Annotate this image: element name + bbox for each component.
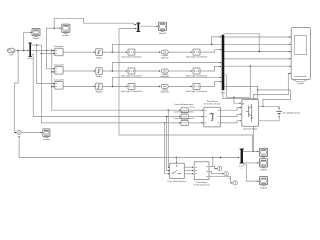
demux Demux (black bar) (28, 43, 33, 60)
wire DC source - return to bridge (259, 116, 280, 120)
wire relay branch row3 to Mux (112, 77, 221, 87)
wire Data Type Conversion4 to Mux (200, 66, 222, 71)
logical operator block Logical Operator (161, 50, 169, 59)
current measurement block Current Measurement1 (174, 111, 194, 119)
meter circle m1 (217, 166, 221, 174)
svg-text:Current Measurement: Current Measurement (174, 104, 193, 106)
data type conversion block Data Type Conversion4 (186, 68, 207, 77)
wire Mux1 output to Scope2 (140, 25, 158, 26)
wire top long line to Mux1 input1 (54, 18, 136, 28)
svg-text:Logical: Logical (162, 73, 168, 75)
wire Mux to Scope in4 (224, 58, 291, 59)
wire feedback down-left to Product circle (14, 51, 18, 134)
svg-text:Three-Phase Breaker: Three-Phase Breaker (167, 181, 186, 183)
relay block Relay2 (96, 83, 103, 93)
svg-text:Scope5: Scope5 (43, 138, 50, 140)
wire Mux to Scope in1 (224, 36, 291, 37)
wire demux2 out2 to Scope2b (243, 162, 259, 163)
svg-text:Scope4: Scope4 (62, 34, 69, 36)
wire demux out2 to Subsystem in1 (31, 50, 55, 51)
svg-text:1: 1 (241, 168, 242, 170)
scope Scope2 (159, 22, 167, 35)
wire Subsystem output to Relay (63, 51, 95, 52)
svg-text:V-I Measurement1: V-I Measurement1 (194, 184, 210, 186)
wire RLC branch to Universal Bridge (220, 107, 241, 110)
scope Scope2 bottom (260, 159, 268, 171)
wire gate band 1 (226, 97, 250, 98)
svg-text:Relay2: Relay2 (96, 91, 103, 93)
wire Logical Operator2 to Data Type Conversion5 (168, 86, 192, 87)
svg-text:m: m (229, 178, 231, 180)
wire Mux to Scope in5 (224, 65, 291, 66)
svg-text:Subsystem1: Subsystem1 (54, 64, 64, 66)
demux Demux1 (black bar bottom) (239, 149, 244, 170)
wire product output to Scope5 (21, 132, 42, 133)
meter circle m2 (224, 172, 230, 180)
svg-text:Data Type Conversion5: Data Type Conversion5 (186, 90, 207, 92)
svg-text:Current Measurement2: Current Measurement2 (174, 117, 194, 119)
wire Relay1 output to Data Type Conversion1 (102, 70, 127, 71)
wire demux out3 phase B to Current Measurement1 (31, 54, 181, 117)
wire V-I out3 to meter m3 (209, 176, 233, 183)
wire phase C drop to breaker in3 (165, 123, 170, 175)
wire Data Type Conversion2 to Logical Operator2 (135, 86, 161, 87)
scope Scope5 (43, 129, 50, 141)
wire relay branch row2 to Mux (112, 62, 221, 71)
subsystem block Subsystem (54, 46, 63, 56)
three-phase V-I measurement block (194, 162, 210, 186)
wire Data Type Conversion to Logical Operator (135, 51, 161, 52)
svg-text:m: m (235, 187, 237, 189)
wire demux2 out3 to Scope3b (243, 164, 259, 182)
meter circle m3 (233, 181, 237, 189)
svg-text:Vref: Vref (9, 54, 13, 56)
svg-text:Operator: Operator (161, 57, 169, 59)
wire Subsystem2 output to Relay2 (63, 86, 95, 87)
svg-text:Relay: Relay (96, 57, 101, 59)
subsystem block Subsystem1 (54, 64, 64, 74)
three-phase series RLC branch block (204, 100, 221, 127)
wire branch to Mux input1 (212, 36, 222, 44)
wire relay branch row1 long line to Scope (in2) (112, 44, 291, 53)
wire breaker control from measurement line (176, 157, 177, 164)
wire up to Scope1 (24, 32, 32, 51)
mux Mux1 (small mux bar with caps) (136, 23, 140, 32)
wire Mux lower output loop (224, 75, 226, 98)
wire row3 extension to right loop (224, 86, 258, 98)
wire demux2 out1 to Scope1b (243, 151, 259, 152)
svg-text:Scope2: Scope2 (260, 169, 267, 171)
svg-text:Scope6: Scope6 (297, 82, 304, 84)
svg-text:Demux: Demux (239, 165, 244, 167)
three-phase breaker block (167, 163, 186, 182)
relay block Relay (96, 49, 103, 59)
data type conversion block Data Type Conversion5 (186, 83, 207, 92)
svg-text:Three-Phase: Three-Phase (207, 100, 218, 102)
product circle (sum) (17, 130, 21, 134)
wire vertical x36.7 to Subsystem2 in1 (37, 45, 55, 84)
data type conversion block Data Type Conversion (122, 49, 142, 58)
svg-text:Three-Phase: Three-Phase (196, 181, 207, 183)
logical operator block Logical Operator1 (160, 69, 169, 78)
wire stub to Subsystem in2 (41, 53, 55, 54)
wire source output to Demux (15, 50, 29, 51)
scope Scope1 bottom (260, 148, 268, 160)
wire V-I out1 up to long measurement line (209, 157, 214, 167)
data type conversion block Data Type Conversion3 (186, 49, 207, 58)
wire stub Subsystem1 in2 (52, 71, 55, 72)
wire Logical Operator to Data Type Conversion3 (168, 51, 192, 52)
wire V-I out1 to meter m1 (213, 167, 217, 170)
svg-text:DC Voltage Source: DC Voltage Source (283, 112, 301, 114)
wire Data Type Conversion5 to Mux (200, 81, 222, 86)
wire vertical x46.6 down to Subsystem1 in1 (47, 51, 55, 70)
universal bridge block (242, 100, 259, 130)
wire Logical Operator1 to Data Type Conversion4 (168, 70, 192, 71)
svg-text:Subsystem2: Subsystem2 (54, 79, 64, 81)
wire Current Measurement output to RLC branch (188, 109, 203, 110)
wire vertical from in5 junction (249, 66, 251, 97)
svg-text:Subsystem: Subsystem (54, 46, 63, 48)
logical operator block Logical Operator2 (160, 84, 169, 93)
wire breaker output to V-I measurement (184, 170, 193, 171)
wire DC-link measurement vertical x119 to Mux1 in2 (119, 28, 252, 151)
wire dc measurement loop (258, 90, 291, 107)
wire up from junction to Scope4 and top line (47, 27, 62, 50)
wire phase A drop to breaker in1 (168, 110, 170, 168)
wire gate drop to Universal Bridge g input (234, 97, 243, 104)
mux Mux (large black bar) (221, 35, 225, 94)
current measurement block Current Measurement2 (174, 117, 194, 125)
svg-text:Current Measurement1: Current Measurement1 (174, 111, 194, 113)
svg-text:Operator2: Operator2 (160, 91, 169, 93)
svg-text:Demux: Demux (28, 58, 33, 60)
svg-text:Universal Bridge: Universal Bridge (243, 128, 257, 130)
wire Relay output to Data Type Conversion (102, 51, 127, 52)
wire demux out1 (31, 44, 41, 45)
wire breaker output to V-I measurement (184, 173, 193, 174)
wire Data Type Conversion1 to Logical Operator1 (135, 70, 161, 71)
wire Current Measurement1 output to RLC branch (188, 116, 203, 117)
relay block Relay1 (96, 68, 103, 78)
wire bridge + output to DC source (259, 107, 280, 110)
svg-text:Data Type Conversion2: Data Type Conversion2 (121, 90, 142, 92)
wire Mux to Scope in3 (224, 51, 291, 52)
wire long measurement line to Demux1 bottom (18, 136, 239, 159)
wire RLC branch to Universal Bridge (220, 113, 241, 116)
scope Scope1 (32, 28, 40, 39)
svg-text:Relay1: Relay1 (96, 76, 103, 78)
wire RLC branch to Universal Bridge (220, 120, 241, 123)
current measurement block Current Measurement (174, 104, 193, 113)
data type conversion block Data Type Conversion2 (121, 83, 142, 92)
svg-text:Scope1: Scope1 (32, 38, 39, 40)
svg-text:Meas1: Meas1 (189, 106, 194, 108)
scope Scope3 bottom (260, 177, 268, 189)
wire Mux top output Z-route to in3 junction (224, 34, 260, 53)
wire Current Measurement2 output to RLC branch (188, 122, 203, 123)
wire phase B drop to breaker in2 (167, 117, 170, 172)
wire gate band 2 (223, 90, 258, 99)
svg-text:Data Type Conversion4: Data Type Conversion4 (186, 75, 207, 77)
wire stub Subsystem2 in2 (52, 86, 55, 87)
scope Scope4 (62, 24, 70, 36)
svg-text:Data Type Conversion3: Data Type Conversion3 (186, 56, 207, 58)
wire Subsystem1 output to Relay1 (63, 70, 95, 71)
svg-text:Logical: Logical (162, 54, 168, 56)
universal bridge g port marker (242, 103, 243, 104)
svg-text:Data Type Conversion1: Data Type Conversion1 (121, 75, 142, 77)
wire phase A vertical x51.8 to Current Measurement (51, 51, 181, 111)
svg-text:Scope3: Scope3 (260, 187, 267, 189)
data type conversion block Data Type Conversion1 (121, 68, 142, 77)
wire breaker output to V-I measurement (184, 166, 193, 167)
svg-text:Scope2: Scope2 (159, 33, 166, 35)
label fragment below current measurement (189, 106, 194, 108)
svg-text:Series RLC Branch: Series RLC Branch (204, 103, 221, 105)
wire Data Type Conversion3 to Mux (200, 49, 222, 52)
wire Scope in6 from below (253, 73, 291, 152)
svg-text:Logical: Logical (162, 89, 168, 91)
scope Scope (large multi-input scope) (291, 27, 310, 84)
subsystem block Subsystem2 (54, 79, 64, 89)
svg-text:Data Type Conversion: Data Type Conversion (122, 56, 142, 58)
source block Vref (sine source) (7, 48, 15, 56)
dc voltage source block (276, 109, 300, 116)
wire phase C vertical x41.4 to Current Measurement2 (41, 45, 181, 124)
wire V-I out2 to meter m2 (209, 172, 224, 175)
wire Relay2 output to Data Type Conversion2 (102, 86, 127, 87)
